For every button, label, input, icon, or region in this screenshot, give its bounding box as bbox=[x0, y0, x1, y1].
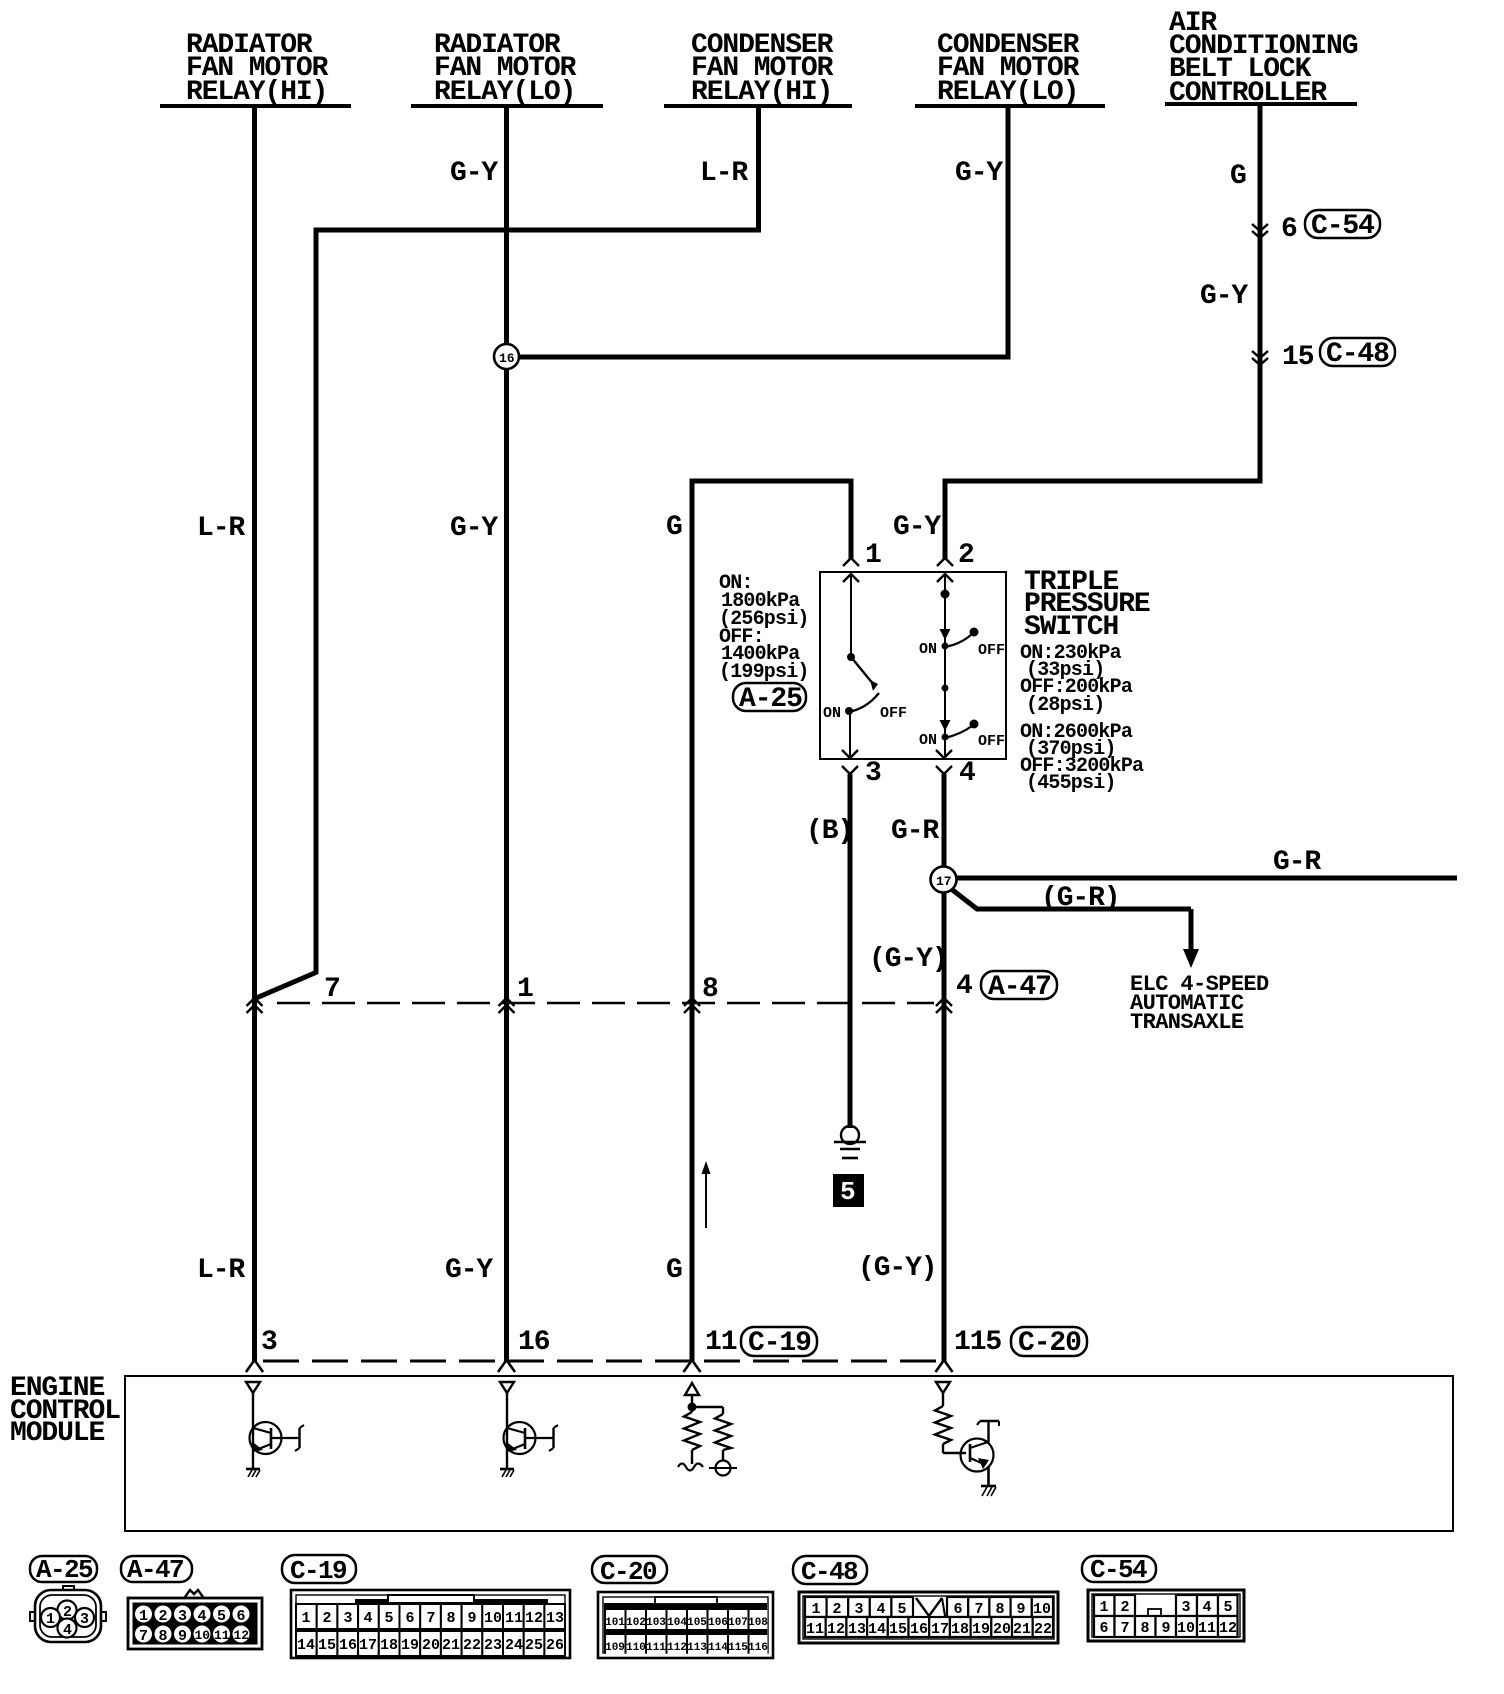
svg-text:16: 16 bbox=[499, 351, 515, 366]
svg-text:2: 2 bbox=[322, 1610, 331, 1627]
transistor under pin 3 bbox=[246, 1382, 304, 1477]
svg-text:9: 9 bbox=[467, 1610, 476, 1627]
svg-text:21: 21 bbox=[1013, 1621, 1031, 1638]
sensor circle bbox=[716, 1461, 731, 1476]
svg-text:12: 12 bbox=[234, 1628, 250, 1643]
wire condenser fan relay HI vertical top bbox=[756, 108, 761, 233]
svg-text:11: 11 bbox=[705, 1327, 737, 1358]
svg-text:ON: ON bbox=[823, 705, 841, 722]
svg-text:3: 3 bbox=[178, 1608, 187, 1625]
svg-text:C-19: C-19 bbox=[290, 1556, 347, 1586]
svg-text:2: 2 bbox=[63, 1604, 72, 1621]
svg-text:5: 5 bbox=[1223, 1599, 1232, 1616]
svg-text:8: 8 bbox=[1140, 1620, 1149, 1637]
svg-text:13: 13 bbox=[546, 1610, 564, 1627]
component label RADIATOR FAN MOTOR RELAY(HI) bbox=[160, 30, 351, 108]
svg-text:11: 11 bbox=[505, 1610, 523, 1627]
wire node16 horizontal y357 bbox=[518, 355, 1011, 360]
chevrons pin 1 bbox=[499, 974, 534, 1013]
connector C-54 label bbox=[1082, 1555, 1156, 1585]
svg-text:3: 3 bbox=[1181, 1599, 1190, 1616]
connector ref A-25 box bbox=[733, 683, 806, 715]
svg-text:3: 3 bbox=[854, 1601, 863, 1618]
wire condenser fan relay LO vertical bbox=[1006, 108, 1011, 357]
svg-text:G-Y: G-Y bbox=[1200, 281, 1248, 312]
svg-text:ON: ON bbox=[919, 641, 937, 658]
svg-text:G-Y: G-Y bbox=[955, 158, 1003, 189]
switch internal medium contact (right upper) bbox=[919, 574, 1005, 659]
dashed ECM connector line bbox=[263, 1360, 937, 1363]
svg-text:2: 2 bbox=[832, 1601, 841, 1618]
dashed connector line A-25/A-47 bbox=[277, 1002, 934, 1005]
svg-text:15: 15 bbox=[1282, 342, 1314, 373]
switch pin 3 chevrons bbox=[842, 750, 881, 789]
svg-text:107: 107 bbox=[728, 1617, 748, 1629]
connector A-25 label bbox=[30, 1555, 97, 1585]
svg-text:17: 17 bbox=[931, 1621, 949, 1638]
svg-text:114: 114 bbox=[708, 1642, 728, 1654]
wire G-Y radiator fan relay LO vertical bbox=[504, 108, 509, 1362]
svg-text:C-48: C-48 bbox=[1326, 339, 1389, 370]
svg-text:12: 12 bbox=[827, 1621, 845, 1638]
svg-text:10: 10 bbox=[195, 1628, 211, 1643]
svg-text:102: 102 bbox=[626, 1617, 646, 1629]
svg-text:4: 4 bbox=[63, 1622, 72, 1639]
wire (G-R) branch to ELC transaxle bbox=[950, 888, 1191, 909]
svg-text:7: 7 bbox=[426, 1610, 435, 1627]
svg-text:G-R: G-R bbox=[891, 816, 939, 847]
svg-text:11: 11 bbox=[1198, 1620, 1216, 1637]
svg-text:G-Y: G-Y bbox=[893, 512, 941, 543]
component label CONDENSER FAN MOTOR RELAY(LO) bbox=[915, 30, 1105, 108]
svg-text:19: 19 bbox=[972, 1621, 990, 1638]
chevrons pin 7 bbox=[247, 974, 340, 1013]
wire (B) from switch pin 3 to ground bbox=[848, 774, 853, 1128]
svg-text:18: 18 bbox=[380, 1637, 398, 1654]
svg-text:A-47: A-47 bbox=[988, 972, 1051, 1003]
switch pin 4 chevrons bbox=[936, 750, 975, 789]
svg-text:3: 3 bbox=[865, 758, 881, 789]
svg-text:C-20: C-20 bbox=[1018, 1328, 1081, 1359]
svg-text:6: 6 bbox=[1099, 1620, 1108, 1637]
svg-text:SWITCH: SWITCH bbox=[1024, 612, 1118, 643]
svg-text:A-25: A-25 bbox=[36, 1555, 93, 1585]
svg-text:21: 21 bbox=[442, 1637, 460, 1654]
svg-text:23: 23 bbox=[484, 1637, 502, 1654]
svg-text:1: 1 bbox=[1099, 1599, 1108, 1616]
chevrons pin 4 A-47 bbox=[936, 971, 1057, 1013]
svg-text:112: 112 bbox=[667, 1642, 687, 1654]
wire diagonal merge into pin 7 bbox=[254, 972, 317, 999]
svg-text:26: 26 bbox=[546, 1637, 564, 1654]
svg-text:13: 13 bbox=[848, 1621, 866, 1638]
svg-text:1: 1 bbox=[865, 540, 881, 571]
svg-text:7: 7 bbox=[974, 1601, 983, 1618]
svg-text:A-47: A-47 bbox=[127, 1555, 183, 1585]
svg-text:103: 103 bbox=[646, 1617, 666, 1629]
component label AIR CONDITIONING BELT LOCK CONTROLLER bbox=[1165, 8, 1358, 109]
ECM pin 11 fork + C-19 ref bbox=[684, 1327, 818, 1372]
svg-text:4: 4 bbox=[363, 1610, 372, 1627]
svg-text:19: 19 bbox=[401, 1637, 419, 1654]
svg-text:7: 7 bbox=[139, 1628, 148, 1645]
connector C-54 drawing bbox=[1088, 1590, 1244, 1641]
svg-text:5: 5 bbox=[217, 1608, 226, 1625]
svg-text:10: 10 bbox=[484, 1610, 502, 1627]
wire condenser HI vertical x316 bbox=[314, 228, 319, 975]
svg-text:(B): (B) bbox=[806, 816, 853, 847]
switch right pressure note text bbox=[1020, 642, 1144, 795]
svg-text:8: 8 bbox=[702, 974, 718, 1005]
svg-text:109: 109 bbox=[605, 1642, 625, 1654]
ECM box bbox=[125, 1376, 1453, 1531]
svg-text:RELAY(HI): RELAY(HI) bbox=[186, 77, 327, 108]
svg-text:G: G bbox=[666, 1255, 682, 1286]
current direction arrow on G wire bbox=[702, 1161, 711, 1228]
svg-text:C-54: C-54 bbox=[1090, 1555, 1147, 1585]
svg-text:108: 108 bbox=[748, 1617, 768, 1629]
svg-text:L-R: L-R bbox=[197, 513, 245, 544]
svg-text:G: G bbox=[666, 512, 682, 543]
resistor R-right bbox=[722, 1407, 724, 1414]
svg-text:106: 106 bbox=[708, 1617, 728, 1629]
svg-text:C-19: C-19 bbox=[748, 1328, 811, 1359]
svg-text:9: 9 bbox=[178, 1628, 187, 1645]
ECM pin 16 fork bbox=[498, 1327, 550, 1372]
svg-text:1: 1 bbox=[301, 1610, 310, 1627]
svg-text:3: 3 bbox=[261, 1327, 277, 1358]
svg-text:111: 111 bbox=[646, 1642, 666, 1654]
connector A-47 label bbox=[121, 1555, 192, 1585]
switch internal low-pressure contact (left) bbox=[823, 574, 907, 758]
switch internal high contact (right lower) bbox=[919, 646, 1005, 758]
svg-text:1: 1 bbox=[517, 974, 533, 1005]
svg-text:8: 8 bbox=[446, 1610, 455, 1627]
svg-text:L-R: L-R bbox=[700, 158, 748, 189]
svg-text:10: 10 bbox=[1177, 1620, 1195, 1637]
connector C-48 drawing bbox=[799, 1592, 1058, 1643]
svg-text:101: 101 bbox=[605, 1617, 625, 1629]
svg-text:14: 14 bbox=[297, 1637, 315, 1654]
wire L-R radiator fan relay HI vertical bbox=[252, 108, 257, 1362]
svg-text:6: 6 bbox=[405, 1610, 414, 1627]
svg-text:5: 5 bbox=[897, 1601, 906, 1618]
ground symbol bbox=[834, 1126, 866, 1158]
svg-text:4: 4 bbox=[198, 1608, 207, 1625]
svg-text:TRANSAXLE: TRANSAXLE bbox=[1130, 1010, 1244, 1035]
connector C-20 drawing bbox=[598, 1592, 773, 1658]
svg-text:115: 115 bbox=[954, 1327, 1001, 1358]
ECM pin 115 fork + C-20 ref bbox=[936, 1327, 1088, 1372]
svg-text:RELAY(LO): RELAY(LO) bbox=[434, 77, 575, 108]
svg-text:8: 8 bbox=[995, 1601, 1004, 1618]
wire G-R node 17 horizontal right bbox=[956, 876, 1457, 881]
resistor network under pin 11 bbox=[678, 1383, 737, 1476]
svg-text:15: 15 bbox=[889, 1621, 907, 1638]
svg-text:1: 1 bbox=[811, 1601, 820, 1618]
svg-text:2: 2 bbox=[958, 540, 974, 571]
svg-text:6: 6 bbox=[953, 1601, 962, 1618]
ENGINE CONTROL MODULE label bbox=[10, 1373, 120, 1449]
connector C-19 label bbox=[282, 1555, 356, 1586]
switch pin 1 chevrons bbox=[843, 540, 881, 582]
connector C-19 drawing bbox=[291, 1590, 570, 1658]
svg-text:7: 7 bbox=[324, 974, 340, 1005]
svg-text:5: 5 bbox=[384, 1610, 393, 1627]
svg-text:15: 15 bbox=[318, 1637, 336, 1654]
svg-text:5: 5 bbox=[840, 1177, 856, 1207]
wire G vertical x692 to ECM pin 11 bbox=[690, 479, 695, 1363]
svg-text:9: 9 bbox=[1161, 1620, 1170, 1637]
connector C-20 label bbox=[592, 1556, 667, 1587]
node 16 bbox=[494, 344, 519, 369]
svg-text:(28psi): (28psi) bbox=[1026, 694, 1104, 717]
connector A-47 drawing bbox=[128, 1590, 262, 1649]
svg-text:20: 20 bbox=[422, 1637, 440, 1654]
svg-text:12: 12 bbox=[1219, 1620, 1237, 1637]
svg-text:OFF: OFF bbox=[978, 733, 1005, 750]
svg-text:25: 25 bbox=[525, 1637, 543, 1654]
svg-text:G-Y: G-Y bbox=[450, 513, 498, 544]
svg-text:18: 18 bbox=[951, 1621, 969, 1638]
svg-text:RELAY(LO): RELAY(LO) bbox=[937, 77, 1078, 108]
svg-text:A-25: A-25 bbox=[739, 684, 802, 715]
transistor under pin 16 bbox=[500, 1382, 558, 1477]
svg-text:11: 11 bbox=[806, 1621, 824, 1638]
svg-text:11: 11 bbox=[214, 1628, 230, 1643]
svg-text:OFF: OFF bbox=[880, 705, 907, 722]
svg-text:16: 16 bbox=[910, 1621, 928, 1638]
wire G-R from switch pin 4 to node 17 bbox=[942, 774, 947, 868]
svg-text:RELAY(HI): RELAY(HI) bbox=[691, 77, 832, 108]
svg-text:1: 1 bbox=[139, 1608, 148, 1625]
svg-text:G-Y: G-Y bbox=[445, 1255, 493, 1286]
svg-text:(G-Y): (G-Y) bbox=[869, 944, 948, 975]
svg-text:17: 17 bbox=[359, 1637, 377, 1654]
resistor and transistor under pin 115 bbox=[935, 1382, 999, 1496]
svg-text:(455psi): (455psi) bbox=[1026, 772, 1116, 795]
svg-text:ON: ON bbox=[919, 732, 937, 749]
component label RADIATOR FAN MOTOR RELAY(LO) bbox=[411, 30, 603, 108]
svg-text:2: 2 bbox=[1120, 1599, 1129, 1616]
svg-text:10: 10 bbox=[1033, 1601, 1051, 1618]
connector chevron 15 C-48 bbox=[1252, 338, 1395, 373]
svg-text:4: 4 bbox=[876, 1601, 885, 1618]
svg-text:L-R: L-R bbox=[197, 1255, 245, 1286]
svg-text:9: 9 bbox=[1016, 1601, 1025, 1618]
switch left pressure note text bbox=[719, 572, 809, 684]
wire horizontal y481 right segment to pressure switch pin 2 bbox=[945, 479, 1263, 484]
svg-text:C-20: C-20 bbox=[600, 1557, 657, 1587]
svg-text:16: 16 bbox=[339, 1637, 357, 1654]
svg-text:MODULE: MODULE bbox=[10, 1418, 105, 1449]
svg-text:116: 116 bbox=[748, 1642, 768, 1654]
chevrons pin 8 bbox=[684, 974, 718, 1013]
svg-text:22: 22 bbox=[463, 1637, 481, 1654]
svg-text:G-Y: G-Y bbox=[450, 158, 498, 189]
svg-text:(199psi): (199psi) bbox=[719, 661, 809, 684]
svg-text:17: 17 bbox=[936, 874, 952, 889]
ECM pin 3 fork bbox=[246, 1327, 277, 1372]
triple pressure switch box bbox=[820, 572, 1006, 759]
svg-text:4: 4 bbox=[956, 971, 972, 1002]
svg-text:3: 3 bbox=[80, 1611, 89, 1628]
connector C-48 label bbox=[793, 1556, 867, 1587]
wire (G-Y) node 17 down to ECM pin 115 bbox=[942, 891, 947, 1362]
svg-text:C-54: C-54 bbox=[1311, 211, 1374, 242]
svg-text:12: 12 bbox=[525, 1610, 543, 1627]
svg-text:110: 110 bbox=[626, 1642, 646, 1654]
svg-text:C-48: C-48 bbox=[801, 1557, 858, 1587]
svg-text:14: 14 bbox=[868, 1621, 886, 1638]
svg-text:G: G bbox=[1230, 161, 1246, 192]
wire horizontal y481 left segment G bbox=[692, 479, 854, 484]
svg-text:105: 105 bbox=[687, 1617, 707, 1629]
svg-text:22: 22 bbox=[1034, 1621, 1052, 1638]
switch pin 2 chevrons bbox=[937, 540, 974, 582]
component label CONDENSER FAN MOTOR RELAY(HI) bbox=[664, 30, 852, 108]
svg-text:4: 4 bbox=[959, 758, 975, 789]
svg-text:2: 2 bbox=[159, 1608, 168, 1625]
svg-text:115: 115 bbox=[728, 1642, 748, 1654]
svg-text:8: 8 bbox=[159, 1628, 168, 1645]
svg-text:G-R: G-R bbox=[1273, 847, 1321, 878]
svg-text:(G-R): (G-R) bbox=[1041, 883, 1120, 914]
svg-text:20: 20 bbox=[993, 1621, 1011, 1638]
wire condenser HI horizontal y230 bbox=[316, 228, 761, 233]
svg-text:4: 4 bbox=[1202, 1599, 1211, 1616]
svg-text:24: 24 bbox=[505, 1637, 523, 1654]
switch name TRIPLE PRESSURE SWITCH bbox=[1024, 567, 1150, 643]
svg-text:7: 7 bbox=[1120, 1620, 1129, 1637]
svg-text:6: 6 bbox=[237, 1608, 246, 1625]
resistor R-left bbox=[684, 1412, 700, 1450]
svg-text:16: 16 bbox=[518, 1327, 550, 1358]
connector A-25 drawing bbox=[30, 1586, 106, 1642]
svg-text:(G-Y): (G-Y) bbox=[858, 1253, 937, 1284]
svg-text:104: 104 bbox=[667, 1617, 687, 1629]
svg-text:113: 113 bbox=[687, 1642, 707, 1654]
wire belt lock controller vertical G / G-Y bbox=[1258, 106, 1263, 484]
wire vertical to switch pin 1 bbox=[849, 479, 854, 560]
wire vertical to switch pin 2 bbox=[943, 479, 948, 560]
node 17 bbox=[931, 867, 957, 893]
svg-text:OFF: OFF bbox=[978, 642, 1005, 659]
svg-text:1: 1 bbox=[46, 1611, 55, 1628]
ground ref 5 black box bbox=[833, 1174, 864, 1207]
svg-text:6: 6 bbox=[1281, 214, 1297, 245]
ELC 4-speed automatic transaxle label bbox=[1130, 972, 1269, 1035]
svg-text:3: 3 bbox=[343, 1610, 352, 1627]
connector chevron 6 C-54 bbox=[1252, 210, 1380, 245]
